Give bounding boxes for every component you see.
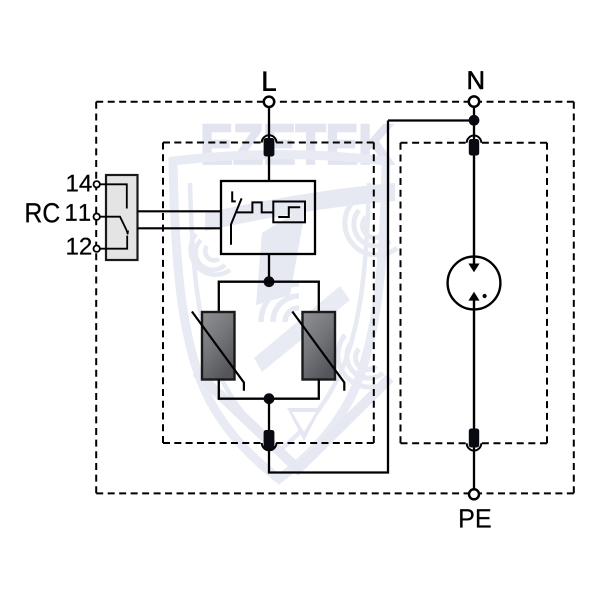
label L bbox=[264, 72, 276, 91]
bottom rail of varistor pair bbox=[219, 380, 319, 399]
wire F1 to disconnector box bbox=[268, 157, 270, 182]
terminal N bbox=[469, 96, 479, 106]
bump arc over fuse F3 on right box top edge bbox=[467, 136, 482, 143]
wire U1 to node A bbox=[268, 254, 270, 282]
label 11 bbox=[66, 204, 90, 221]
fuse F4 bbox=[469, 429, 479, 448]
bump arc under fuse F2 on left box bottom edge bbox=[262, 443, 277, 450]
varistor RU1 body bbox=[202, 312, 235, 380]
label 14 bbox=[67, 175, 91, 192]
wire F3 to GDT electrode bbox=[473, 156, 475, 266]
inner dashed box right (GDT module) bbox=[401, 142, 548, 144]
bottom run wire to riser bbox=[268, 121, 388, 473]
arc fan B bbox=[261, 284, 299, 322]
RC common 11 lead and blade bbox=[100, 217, 128, 235]
shield outer band bbox=[173, 155, 386, 480]
node B junction dot bbox=[264, 393, 275, 404]
node A junction dot bbox=[264, 276, 275, 287]
node N junction dot bbox=[469, 115, 480, 126]
GDT lower electrode arrowhead bbox=[468, 292, 479, 301]
arc fan A bbox=[191, 234, 230, 275]
fuse F3 bbox=[469, 139, 479, 156]
varistor RU2 diagonal bbox=[292, 312, 344, 391]
wire F4 to terminal PE bbox=[473, 448, 475, 490]
RC terminal 12 bbox=[94, 246, 100, 252]
U1 fixed contact bbox=[232, 191, 236, 201]
U1 step symbol bbox=[278, 207, 300, 217]
wire RC to U1 lower bbox=[138, 227, 222, 229]
wire node N to fuse F3 bbox=[473, 120, 475, 140]
U1 trigger box bbox=[273, 202, 305, 223]
bump arc under fuse F4 on right box bottom edge bbox=[467, 443, 482, 450]
GDT FV1 circle bbox=[448, 257, 501, 310]
top rail of varistor pair bbox=[219, 282, 319, 312]
bolt 7 tail bbox=[254, 286, 350, 372]
label PE bbox=[460, 509, 490, 527]
varistor RU1 diagonal bbox=[192, 312, 244, 391]
terminal PE bbox=[469, 489, 479, 499]
fuse F1 bbox=[264, 138, 275, 157]
wire GDT to fuse F4 bbox=[473, 300, 475, 430]
top run wire riser to node N bbox=[388, 119, 474, 121]
wire RC to U1 upper bbox=[138, 210, 222, 212]
bolt 7 leg bbox=[256, 206, 306, 305]
wire N terminal to node N bbox=[473, 107, 475, 125]
GDT gas dot bbox=[483, 294, 487, 298]
thermal disconnector box U1 bbox=[221, 181, 315, 254]
shield inner line bbox=[190, 183, 369, 451]
arc fan D bbox=[345, 203, 397, 255]
wire L terminal to fuse F1 bbox=[268, 107, 270, 139]
watermark EZETEK logo bbox=[173, 125, 397, 479]
label 12 bbox=[67, 238, 91, 255]
RC terminal 14 bbox=[94, 181, 100, 187]
arc fan C bbox=[338, 335, 390, 387]
U1 switch blade bbox=[231, 198, 242, 244]
outer dashed enclosure bbox=[96, 101, 574, 103]
RC terminal 11 bbox=[94, 214, 100, 220]
wire F2 down to bottom run bbox=[268, 450, 270, 473]
fuse F2 bbox=[264, 430, 275, 450]
label N bbox=[469, 71, 483, 89]
GDT upper electrode arrowhead bbox=[468, 264, 479, 273]
bump arc over fuse F1 on left box top edge bbox=[262, 135, 277, 142]
RC contact 12 lead bbox=[100, 236, 127, 249]
RC contact 14 lead bbox=[100, 184, 127, 208]
inner dashed box left (varistor module) bbox=[163, 142, 374, 144]
U1 link wire with pulse notch bbox=[236, 202, 274, 212]
RC blade tip barb bbox=[126, 230, 129, 234]
remote contact block RC body bbox=[106, 175, 138, 260]
terminal L bbox=[264, 97, 274, 107]
chevron band bbox=[196, 372, 390, 469]
label RC bbox=[26, 203, 59, 223]
bolt 7 bar bbox=[205, 183, 395, 231]
wire node B to fuse F2 bbox=[268, 399, 270, 431]
varistor RU2 body bbox=[303, 312, 336, 380]
